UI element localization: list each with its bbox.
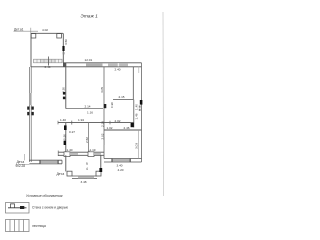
svg-text:4.02: 4.02 bbox=[42, 28, 48, 32]
west wall window grey bbox=[29, 93, 31, 105]
legend door square bbox=[11, 204, 15, 208]
top wall window grey 2 bbox=[108, 63, 128, 66]
staircase bbox=[34, 59, 63, 63]
svg-text:0.90: 0.90 bbox=[62, 134, 66, 140]
east wall inner stub bbox=[138, 67, 140, 73]
legend box wall bbox=[6, 203, 30, 214]
svg-text:1.40: 1.40 bbox=[135, 104, 139, 110]
svg-text:1.16: 1.16 bbox=[87, 110, 93, 114]
tick vestibule right wall bbox=[99, 168, 102, 172]
door tick bathroom bbox=[64, 125, 67, 130]
interior wall vertical x104 bbox=[103, 67, 105, 159]
svg-text:1.46: 1.46 bbox=[135, 113, 139, 119]
door marks wall x66 bbox=[63, 92, 65, 95]
svg-text:1.19: 1.19 bbox=[90, 148, 96, 152]
svg-text:Стена с окном и дверью: Стена с окном и дверью bbox=[32, 205, 69, 209]
interior wall x133 mid bbox=[133, 100, 135, 128]
top wall window grey 1 bbox=[86, 63, 103, 66]
svg-text:1.94: 1.94 bbox=[78, 118, 84, 122]
svg-text:2.02: 2.02 bbox=[100, 133, 104, 139]
hall wall y152 outer bbox=[58, 151, 104, 153]
svg-text:лестница: лестница bbox=[32, 224, 46, 228]
svg-text:2.14: 2.14 bbox=[85, 104, 91, 108]
interior wall vertical x66 upper bbox=[65, 67, 67, 109]
door square hall left bbox=[64, 152, 70, 157]
east wall bbox=[141, 63, 143, 162]
svg-text:Условные обозначения: Условные обозначения bbox=[26, 194, 63, 198]
right room inner line bbox=[138, 130, 140, 159]
corner square left bbox=[31, 34, 36, 38]
door tick x133 bbox=[131, 123, 134, 128]
page fold line bbox=[162, 12, 165, 196]
extension line bottom left bbox=[23, 154, 25, 160]
vestibule right wall bbox=[100, 155, 102, 171]
west wall upper bbox=[30, 33, 32, 67]
door tick wall x104 bbox=[104, 104, 107, 108]
corridor wall y122 bbox=[58, 122, 134, 124]
svg-text:0.90: 0.90 bbox=[110, 102, 114, 108]
staircase centre tick bbox=[48, 57, 50, 66]
closet wall y99 bbox=[113, 99, 133, 101]
svg-text:1.40: 1.40 bbox=[67, 148, 73, 152]
svg-text:2.40: 2.40 bbox=[115, 67, 121, 71]
main top wall outer bbox=[63, 62, 141, 64]
svg-text:4.05: 4.05 bbox=[100, 87, 104, 93]
west wall window end marks bbox=[27, 107, 29, 110]
bathroom wall x88 bbox=[88, 123, 90, 153]
bathroom wall x66 lower bbox=[65, 123, 67, 153]
window grey wall x104 bbox=[103, 137, 105, 145]
dimension tick y122 bbox=[71, 121, 73, 125]
svg-text:2.15: 2.15 bbox=[119, 95, 125, 99]
svg-text:12.01: 12.01 bbox=[85, 58, 93, 62]
vestibule bottom wall outer bbox=[72, 175, 97, 177]
svg-text:0.27: 0.27 bbox=[69, 130, 75, 134]
svg-text:4.20: 4.20 bbox=[118, 168, 124, 172]
svg-text:3.40: 3.40 bbox=[117, 164, 123, 168]
window size marks east wall bbox=[139, 106, 141, 108]
door square hall right bbox=[88, 152, 94, 157]
bottom wall right room outer bbox=[104, 158, 142, 160]
bottom wall right room inner bbox=[104, 161, 142, 163]
svg-text:2.16: 2.16 bbox=[100, 121, 104, 127]
bathroom tick lower bbox=[64, 141, 66, 145]
svg-text:4.30: 4.30 bbox=[62, 87, 66, 93]
svg-text:3.03: 3.03 bbox=[134, 143, 138, 149]
legend box stairs bbox=[6, 220, 30, 232]
svg-text:Дет.а1: Дет.а1 bbox=[14, 28, 24, 32]
west wall lower double bbox=[28, 67, 30, 162]
svg-text:4: 4 bbox=[86, 167, 88, 171]
svg-text:Дет.а: Дет.а bbox=[57, 172, 65, 176]
vestibule grey door bbox=[78, 176, 94, 178]
vestibule door square left bbox=[67, 171, 72, 176]
vestibule left wall bbox=[65, 155, 67, 171]
window tick garage right wall bbox=[62, 46, 64, 51]
main top wall inner bbox=[31, 66, 142, 68]
legend window tick bbox=[20, 206, 24, 209]
legend stairs lines bbox=[9, 220, 11, 232]
closet wall x133 upper bbox=[132, 67, 134, 100]
svg-text:1.40: 1.40 bbox=[60, 118, 66, 122]
grey window right room bbox=[112, 159, 130, 162]
svg-text:2.46: 2.46 bbox=[124, 126, 130, 130]
hall wall y152 inner bbox=[58, 154, 104, 156]
svg-text:9: 9 bbox=[86, 162, 88, 166]
vestibule bottom wall inner bbox=[72, 177, 97, 179]
left room wall step bbox=[61, 160, 63, 164]
svg-text:1.02: 1.02 bbox=[107, 126, 113, 130]
bottom wall left room outer bbox=[29, 159, 62, 161]
svg-text:2.02: 2.02 bbox=[115, 119, 121, 123]
grey segment hall left bbox=[70, 152, 78, 155]
garage right wall bbox=[62, 33, 64, 63]
legend wall line bbox=[8, 207, 27, 209]
vestibule door square right bbox=[96, 171, 101, 176]
corner square right bbox=[57, 34, 62, 38]
garage top wall bbox=[31, 32, 63, 34]
svg-text:3.50: 3.50 bbox=[64, 39, 68, 45]
interior wall horizontal y108 bbox=[66, 108, 103, 110]
window tick east wall bbox=[140, 100, 143, 105]
svg-text:Этаж 1: Этаж 1 bbox=[81, 14, 99, 20]
bottom wall left room inner bbox=[29, 163, 62, 165]
right room top wall y130 bbox=[104, 129, 142, 131]
grey segment hall right bbox=[94, 152, 101, 155]
svg-text:3.48: 3.48 bbox=[81, 180, 87, 184]
svg-text:2.52: 2.52 bbox=[85, 137, 89, 143]
grey door left room bbox=[40, 161, 58, 164]
